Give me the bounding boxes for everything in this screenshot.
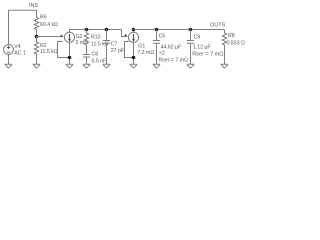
voltage source V4: [4, 45, 14, 55]
svg-text:C5: C5: [159, 33, 166, 39]
resistor R10: [84, 33, 88, 45]
svg-text:V4: V4: [14, 44, 20, 50]
wire OUTS rail: [134, 29, 225, 31]
svg-text:G1: G1: [138, 43, 145, 49]
resistor R8: [222, 33, 226, 45]
capacitor C9: [187, 41, 194, 44]
wire G2 output bottom: [69, 43, 71, 65]
wire C9 top lead: [190, 30, 192, 41]
wire left rail G2 to G1: [70, 29, 122, 31]
wire node to R2: [36, 37, 38, 43]
wire G2 minus control loop: [58, 42, 70, 58]
wire node to G2 plus input: [37, 36, 64, 38]
wire G1 output bottom: [133, 43, 135, 65]
wire left rail down to G1 plus input: [122, 30, 128, 37]
svg-text:60.4 kΩ: 60.4 kΩ: [40, 22, 58, 28]
vccs G2: [58, 32, 75, 42]
wire G1 output top: [133, 30, 135, 33]
svg-text:0.833 Ω: 0.833 Ω: [227, 41, 245, 47]
svg-text:27 pF: 27 pF: [111, 48, 124, 54]
svg-text:7.2 mΩ: 7.2 mΩ: [137, 50, 154, 56]
svg-text:R8: R8: [228, 33, 235, 39]
ground under G1: [130, 64, 137, 68]
ground under R2: [33, 64, 40, 68]
node junction dot R6/R2/G2+: [35, 35, 39, 39]
svg-text:OUTS: OUTS: [210, 22, 226, 28]
ground under G2: [66, 64, 73, 68]
resistor R6: [34, 18, 38, 30]
wire left vertical to V4: [8, 10, 10, 44]
ground under C5: [153, 64, 160, 68]
ground under C9: [187, 64, 194, 68]
svg-text:Rser = 7 mΩ: Rser = 7 mΩ: [159, 58, 189, 64]
wire C9 to ground: [190, 43, 192, 64]
node junction dot C5 top: [155, 28, 159, 32]
node junction dot C7 top: [105, 28, 109, 32]
capacitor C5: [153, 41, 160, 44]
wire R8 top lead: [224, 30, 226, 34]
wire G2 output top: [69, 30, 71, 33]
node junction dot G1 top on OUTS rail: [132, 28, 136, 32]
ground under C7: [103, 64, 110, 68]
vccs G1: [124, 32, 138, 42]
svg-text:C7: C7: [111, 42, 118, 48]
capacitor C7: [103, 41, 110, 44]
resistor R2: [34, 42, 38, 54]
wire V4 bottom to ground: [8, 54, 10, 64]
svg-text:R6: R6: [40, 15, 47, 21]
node junction dot C9 top: [189, 28, 193, 32]
svg-text:×2: ×2: [159, 51, 165, 57]
ground under R8: [221, 64, 228, 68]
svg-text:AC 1: AC 1: [14, 50, 26, 56]
wire R2 bottom to ground: [36, 54, 38, 64]
svg-text:C9: C9: [194, 34, 201, 40]
node junction dot G2 bottom: [68, 56, 72, 60]
svg-text:R10: R10: [91, 35, 101, 41]
capacitor C8: [83, 55, 90, 58]
ground under C8: [83, 64, 90, 68]
wire C7 top lead: [106, 30, 108, 41]
node junction dot G1 bottom: [132, 56, 136, 60]
ground under V4: [5, 64, 12, 68]
wire top-left horizontal INS rail: [9, 9, 37, 11]
node junction dot R10 top: [85, 28, 89, 32]
svg-text:INS: INS: [29, 3, 39, 9]
svg-text:R2: R2: [40, 43, 47, 49]
svg-text:Rser = 7 mΩ: Rser = 7 mΩ: [192, 51, 223, 57]
wire C8 to ground: [86, 57, 88, 64]
wire C5 top lead: [156, 30, 158, 41]
wire C7 to ground: [106, 43, 108, 64]
wire R6 bottom to node: [36, 30, 38, 37]
wire R10 to C8: [86, 45, 88, 55]
wire C5 to ground: [156, 43, 158, 64]
wire R6 top lead: [36, 10, 38, 17]
svg-text:G2: G2: [76, 34, 83, 40]
wire R8 bottom to ground: [224, 45, 226, 64]
svg-text:1.12 µF: 1.12 µF: [193, 44, 211, 50]
svg-text:C8: C8: [92, 52, 99, 58]
svg-text:44.62 µF: 44.62 µF: [161, 44, 182, 50]
wire R10 top lead: [86, 30, 88, 34]
svg-text:11.5 kΩ: 11.5 kΩ: [40, 49, 58, 55]
wire G1 minus control loop: [125, 42, 134, 58]
